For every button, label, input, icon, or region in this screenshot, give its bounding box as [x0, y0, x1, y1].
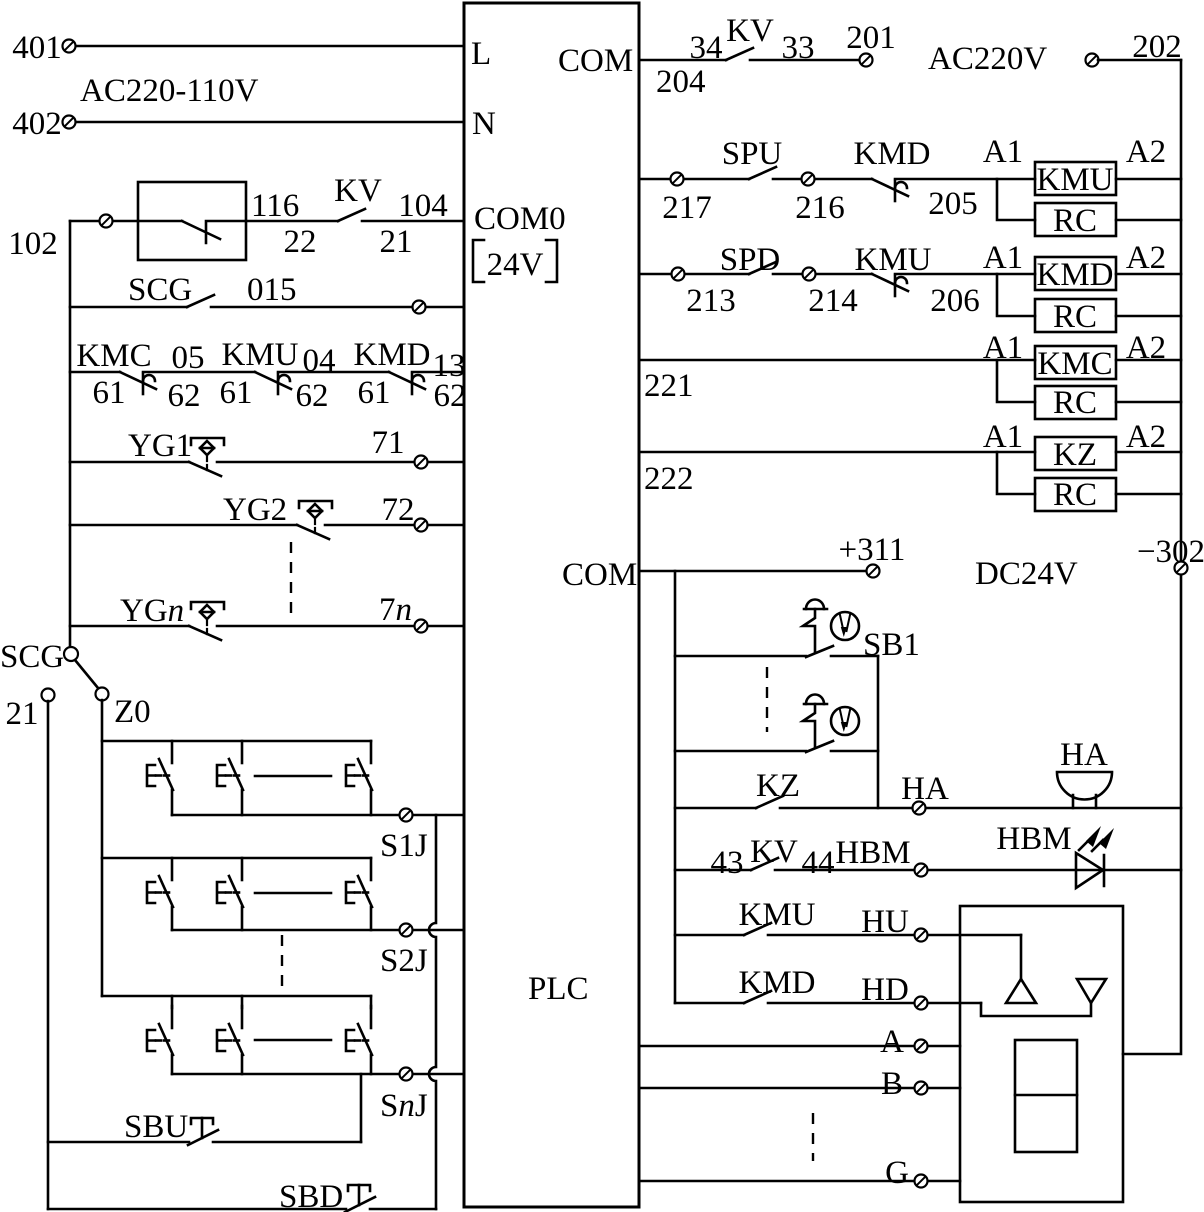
S2J group top bus	[102, 857, 371, 860]
contact KMD (down lamp)	[744, 991, 771, 1003]
S1J limit contact 1 lower lead	[171, 790, 174, 815]
svg-text:PLC: PLC	[528, 971, 589, 1007]
wire KMC rung 221	[639, 359, 1035, 362]
terminal G	[915, 1175, 928, 1188]
wire L input 401	[75, 45, 464, 48]
wire between KMC and KMU contacts	[143, 371, 255, 374]
wire A1 branch to RC (KMD)	[997, 274, 1035, 316]
wire 104 to COM0	[362, 220, 464, 223]
wire HU inside display to up arrow	[1020, 935, 1023, 979]
wire KMC A2 to rail	[1116, 359, 1181, 362]
wire N input 402	[75, 121, 464, 124]
S2J limit contact 1 lower lead	[171, 907, 174, 930]
wire YGn to PLC input 7n	[217, 625, 464, 628]
wire SPD rung from PLC	[639, 273, 749, 276]
svg-text:KZ: KZ	[1053, 437, 1097, 473]
svg-text:SBD: SBD	[279, 1179, 343, 1212]
left bus rail (node 102)	[69, 221, 72, 647]
svg-text:SnJ: SnJ	[380, 1088, 428, 1124]
wire KZ to bell HA	[780, 807, 1181, 810]
S2J ellipsis wire	[255, 892, 331, 895]
wire B output	[639, 1087, 960, 1090]
S2J limit contact 2 lower lead	[241, 907, 244, 930]
SnJ group top bus	[102, 995, 371, 998]
terminal 401	[63, 40, 76, 53]
terminal on 72 wire	[415, 519, 428, 532]
COM0 24V bracket left	[473, 240, 484, 282]
wire 015 to PLC	[211, 306, 464, 309]
svg-text:COM0: COM0	[474, 201, 566, 237]
wire G output	[639, 1180, 960, 1183]
wire HBM rung	[675, 869, 751, 872]
wire RC to rail (KMC)	[1116, 401, 1181, 404]
wire RC to rail (KMU)	[1116, 219, 1181, 222]
svg-text:222: 222	[644, 461, 694, 497]
svg-text:KMC: KMC	[76, 338, 151, 374]
right supply rail	[1123, 60, 1181, 1054]
selector switch SCG pole circle	[64, 647, 78, 661]
up arrow indicator	[1006, 979, 1036, 1003]
wire SPU rung from PLC	[639, 178, 749, 181]
svg-text:AC220-110V: AC220-110V	[80, 73, 259, 109]
svg-text:A2: A2	[1126, 240, 1166, 276]
svg-text:L: L	[471, 36, 491, 72]
coil KMU box	[1035, 162, 1116, 195]
S1J limit contact 3	[346, 741, 372, 790]
svg-text:A2: A2	[1126, 419, 1166, 455]
svg-text:Z0: Z0	[114, 694, 151, 730]
terminal -302 on rail	[1175, 562, 1188, 575]
wire rail from node Z0 down	[101, 700, 104, 996]
emergency stop button SBn	[803, 695, 859, 753]
svg-text:21: 21	[6, 696, 39, 732]
svg-text:116: 116	[251, 188, 299, 224]
wire rail from node 21 down	[47, 701, 50, 1209]
relay KV internal contact	[138, 221, 246, 243]
wire 33 to terminal 201	[750, 59, 860, 62]
svg-text:KMU: KMU	[854, 242, 931, 278]
wire RC to rail (KZ)	[1116, 493, 1181, 496]
wire A1 branch to RC (KZ)	[997, 452, 1035, 494]
wire YG1 to PLC input 71	[217, 461, 464, 464]
sensor contact YG1	[189, 438, 224, 476]
svg-text:217: 217	[662, 190, 712, 226]
svg-text:RC: RC	[1053, 299, 1097, 335]
wire HU to display unit	[768, 934, 1021, 937]
svg-text:KMU: KMU	[1036, 162, 1113, 198]
svg-text:21: 21	[380, 224, 413, 260]
terminal HBM	[915, 864, 928, 877]
dashed ellipsis between SB rows	[766, 667, 768, 732]
svg-text:62: 62	[434, 378, 467, 414]
svg-text:05: 05	[172, 340, 205, 376]
svg-text:204: 204	[656, 64, 706, 100]
snubber RC box (KMC)	[1035, 386, 1116, 419]
svg-text:22: 22	[284, 224, 317, 260]
wire 102 rung to COM0	[70, 220, 138, 223]
svg-text:KMU: KMU	[221, 337, 298, 373]
svg-text:A1: A1	[983, 240, 1023, 276]
seven segment digit box	[1015, 1040, 1077, 1152]
snubber RC box (KZ)	[1035, 478, 1116, 511]
coil KMD box	[1035, 257, 1116, 290]
wire KMU A2 to rail	[1116, 178, 1181, 181]
svg-text:44: 44	[802, 845, 835, 881]
wire KZ rung 222	[639, 451, 1035, 454]
svg-text:402: 402	[12, 106, 62, 142]
svg-text:A1: A1	[983, 330, 1023, 366]
coil KZ box	[1035, 437, 1116, 470]
terminal 213	[672, 268, 685, 281]
svg-text:213: 213	[686, 283, 736, 319]
selector switch SCG blade	[75, 660, 98, 688]
dashed ellipsis between B and G	[812, 1113, 814, 1161]
terminal 201	[860, 54, 873, 67]
svg-text:SBU: SBU	[124, 1109, 188, 1145]
svg-text:SCG: SCG	[128, 272, 192, 308]
wire YG2 to PLC input 72	[325, 524, 464, 527]
wire 205 to coil KMU	[895, 178, 1035, 181]
svg-text:S2J: S2J	[380, 943, 428, 979]
svg-text:43: 43	[711, 845, 744, 881]
PLC main box U1	[464, 3, 639, 1207]
terminal on 102 rung	[100, 215, 113, 228]
svg-text:A1: A1	[983, 134, 1023, 170]
S2J bottom bus to PLC	[172, 929, 464, 932]
SnJ bottom bus to PLC	[172, 1073, 464, 1076]
svg-text:KMU: KMU	[738, 897, 815, 933]
contact KMD b-contact (interlock)	[872, 179, 908, 201]
svg-text:24V: 24V	[487, 247, 544, 283]
display unit box	[960, 906, 1123, 1202]
DC left branch rail	[674, 571, 677, 1003]
contact KV (output common)	[726, 48, 753, 60]
svg-text:AC220V: AC220V	[928, 41, 1047, 77]
wire 202 to right rail	[1098, 59, 1181, 62]
svg-text:A1: A1	[983, 419, 1023, 455]
svg-text:KMD: KMD	[853, 136, 930, 172]
wire KZ contact rung	[675, 807, 756, 810]
SnJ limit contact 2 upper lead	[241, 996, 244, 1008]
SnJ limit contact 2	[217, 1006, 243, 1055]
wire SBn to branch	[831, 750, 878, 753]
svg-text:62: 62	[296, 378, 329, 414]
contact SPD	[749, 262, 776, 274]
wire KMD lamp rung	[675, 1002, 744, 1005]
terminal +311	[867, 565, 880, 578]
contact KMU (up lamp)	[744, 923, 771, 935]
svg-text:RC: RC	[1053, 203, 1097, 239]
SB group right branch rail	[877, 656, 880, 808]
contact KV (brake lamp)	[751, 858, 778, 870]
S2J limit contact 1	[147, 858, 173, 907]
wire SB1 to branch	[831, 655, 878, 658]
wire RC to rail (KMD)	[1116, 315, 1181, 318]
svg-text:SB1: SB1	[863, 627, 920, 663]
contact KMU b-contact (interlock)	[872, 274, 908, 296]
svg-text:KMD: KMD	[738, 965, 815, 1001]
COM0 24V bracket right	[546, 240, 557, 282]
wire SBU branch up to SnJ bus	[360, 1074, 363, 1142]
SnJ limit contact 2 lower lead	[241, 1055, 244, 1074]
contact KMU b-contact 61-62	[255, 372, 291, 394]
S1J ellipsis wire	[255, 775, 331, 778]
SnJ limit contact 1 upper lead	[171, 996, 174, 1008]
wire SBD to riser	[370, 1208, 436, 1211]
terminal 217	[671, 173, 684, 186]
svg-text:04: 04	[303, 343, 336, 379]
svg-text:S1J: S1J	[380, 828, 428, 864]
terminal 214	[773, 273, 872, 276]
S1J limit contact 2 lower lead	[241, 790, 244, 815]
wire HD to display unit	[768, 1002, 981, 1005]
wire COM output rung 204	[639, 59, 726, 62]
selector throw circle Z0	[96, 688, 109, 701]
down arrow indicator	[1077, 979, 1106, 1003]
riser wire with crossovers to S1J wire	[429, 815, 436, 1209]
terminal B	[915, 1082, 928, 1095]
terminal 402	[63, 116, 76, 129]
svg-text:34: 34	[690, 30, 723, 66]
dashed ellipsis between S2J and SnJ groups	[281, 935, 283, 986]
svg-text:102: 102	[8, 226, 58, 262]
terminal on 015 wire	[413, 301, 426, 314]
wire SBD rung (bottom)	[48, 1208, 346, 1211]
svg-text:015: 015	[247, 272, 297, 308]
terminal HD	[915, 997, 928, 1010]
wire KMU lamp rung	[675, 934, 744, 937]
relay KV box outline	[138, 182, 246, 260]
wire KMD contact to PLC input 13	[412, 371, 464, 374]
S1J limit contact 1	[147, 741, 173, 790]
svg-text:N: N	[472, 106, 496, 142]
wire A output	[639, 1045, 960, 1048]
terminal A	[915, 1040, 928, 1053]
contact KMD b-contact 61-62	[389, 372, 425, 394]
wire SCG rung 015	[70, 306, 187, 309]
wire HD inside display to down arrow	[981, 1003, 1091, 1016]
SnJ limit contact 1 lower lead	[171, 1055, 174, 1074]
svg-text:KV: KV	[750, 834, 798, 870]
contact KMC b-contact 61-62	[120, 372, 156, 394]
terminal on 71 wire	[415, 456, 428, 469]
svg-text:SCG: SCG	[0, 639, 64, 675]
wire KMC/KMU/KMD series rung	[70, 371, 120, 374]
wire KZ A2 to rail	[1116, 451, 1181, 454]
svg-text:HBM: HBM	[996, 821, 1071, 857]
svg-text:KV: KV	[334, 173, 382, 209]
svg-text:401: 401	[12, 30, 62, 66]
wire 206 to coil KMD	[895, 273, 1035, 276]
wire KMD A2 to rail	[1116, 273, 1181, 276]
seven segment digit divider	[1015, 1094, 1077, 1097]
pushbutton SBD	[345, 1185, 375, 1212]
selector throw circle 21	[42, 689, 55, 702]
svg-text:RC: RC	[1053, 477, 1097, 513]
svg-text:YGn: YGn	[120, 593, 184, 629]
SnJ ellipsis wire	[255, 1039, 331, 1042]
terminal 202	[1086, 54, 1099, 67]
sensor contact YGn	[189, 602, 224, 640]
wire SBU rung	[48, 1141, 189, 1144]
svg-text:G: G	[885, 1155, 909, 1191]
sensor contact YG2	[297, 501, 332, 539]
svg-text:201: 201	[846, 20, 896, 56]
wire YG1 rung	[70, 461, 189, 464]
svg-text:61: 61	[220, 375, 253, 411]
contact SPU	[749, 167, 776, 179]
terminal HU	[915, 929, 928, 942]
svg-text:71: 71	[372, 425, 405, 461]
svg-text:YG2: YG2	[223, 492, 287, 528]
wire SBn rung	[675, 750, 806, 753]
svg-text:KMD: KMD	[353, 337, 430, 373]
snubber RC box (KMU)	[1035, 203, 1116, 236]
SnJ limit contact 1	[147, 1006, 173, 1055]
SnJ limit contact 3	[346, 1006, 372, 1055]
SnJ limit contact 3 lower lead	[370, 1055, 373, 1074]
terminal SnJ	[400, 1068, 413, 1081]
svg-text:61: 61	[358, 375, 391, 411]
svg-text:72: 72	[382, 492, 415, 528]
LED HBM symbol	[1076, 853, 1104, 888]
S2J limit contact 2	[217, 858, 243, 907]
svg-text:YG1: YG1	[128, 428, 192, 464]
svg-text:216: 216	[795, 190, 845, 226]
svg-text:KV: KV	[726, 13, 774, 49]
dashed ellipsis between YG2 and YGn	[290, 542, 292, 614]
emergency stop button SB1	[803, 600, 859, 658]
wire between KMU and KMD contacts	[278, 371, 389, 374]
bell HA symbol	[1057, 772, 1112, 808]
S2J limit contact 3	[346, 858, 372, 907]
svg-text:HBM: HBM	[835, 835, 910, 871]
svg-text:214: 214	[808, 283, 858, 319]
svg-text:A: A	[880, 1024, 904, 1060]
snubber RC box (KMD)	[1035, 299, 1116, 332]
svg-text:HA: HA	[1060, 737, 1108, 773]
svg-text:COM: COM	[562, 557, 637, 593]
svg-text:KMD: KMD	[1036, 257, 1113, 293]
contact KZ	[756, 796, 783, 808]
S1J limit contact 3 lower lead	[370, 790, 373, 815]
wire SBU to branch	[213, 1141, 361, 1144]
svg-text:KMC: KMC	[1037, 346, 1112, 382]
svg-text:DC24V: DC24V	[975, 556, 1078, 592]
svg-text:KZ: KZ	[756, 768, 800, 804]
svg-text:7n: 7n	[379, 592, 412, 628]
svg-text:SPD: SPD	[720, 242, 781, 278]
wire SB1 rung	[675, 655, 806, 658]
LED HBM emission arrows	[1079, 839, 1103, 851]
contact KV (a-contact on 102 rung)	[246, 220, 338, 223]
S1J group top bus	[102, 740, 371, 743]
svg-text:205: 205	[928, 186, 978, 222]
S1J limit contact 2	[217, 741, 243, 790]
svg-text:COM: COM	[558, 43, 633, 79]
wire 44 to LED	[775, 869, 1181, 872]
svg-text:61: 61	[93, 375, 126, 411]
terminal 216	[773, 178, 872, 181]
terminal S1J	[400, 809, 413, 822]
svg-text:−302: −302	[1137, 534, 1204, 570]
svg-text:SPU: SPU	[722, 136, 783, 172]
wire A1 branch to RC (KMU)	[997, 179, 1035, 220]
SnJ limit contact 3 upper lead	[370, 996, 373, 1008]
svg-text:+311: +311	[839, 532, 906, 568]
contact SCG	[187, 295, 214, 307]
svg-text:HA: HA	[901, 771, 949, 807]
pushbutton SBU	[188, 1118, 218, 1145]
svg-text:A2: A2	[1126, 134, 1166, 170]
svg-text:RC: RC	[1053, 385, 1097, 421]
svg-text:206: 206	[930, 283, 980, 319]
svg-text:104: 104	[398, 188, 448, 224]
svg-text:221: 221	[644, 368, 694, 404]
terminal HA	[913, 802, 926, 815]
S2J limit contact 3 lower lead	[370, 907, 373, 930]
terminal S2J	[400, 924, 413, 937]
wire YGn rung	[70, 625, 189, 628]
wire YG2 rung	[70, 524, 297, 527]
coil KMC box	[1035, 346, 1116, 379]
svg-text:B: B	[881, 1066, 903, 1102]
S1J bottom bus to PLC	[172, 814, 464, 817]
wire DC COM output +311	[639, 570, 866, 573]
svg-text:62: 62	[168, 378, 201, 414]
terminal on 7n wire	[415, 620, 428, 633]
wire A1 branch to RC (KMC)	[997, 360, 1035, 402]
